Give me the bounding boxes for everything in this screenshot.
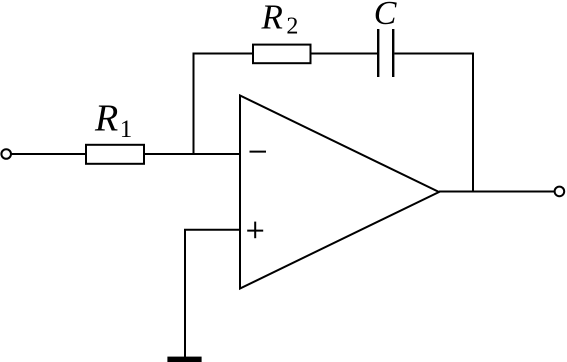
wire: input terminal to R1 [11,153,86,155]
op-amp U1 inverting input label (minus) [250,151,267,153]
wire: top rail, node A to R2 [193,53,254,55]
wire: non-inverting input horizontal [184,229,240,231]
input terminal (left open circle) [1,149,11,159]
capacitor C (two plates) [378,29,393,77]
wire: down to ground [184,230,186,357]
svg-text:R2: R2 [261,0,299,39]
wire: R1 to inverting input [144,153,240,155]
ground [167,357,201,362]
op-amp U1 (triangle) [240,96,439,289]
output terminal (right open circle) [555,187,565,197]
svg-text:R1: R1 [94,98,132,144]
resistor R1 (box) [86,145,144,164]
wire: feedback left vertical (node A up to top rail) [193,54,195,156]
resistor R2 (box) [253,45,311,64]
wire: capacitor to right vertical [394,53,474,55]
svg-text:C: C [374,0,397,32]
wire: R2 to capacitor C [311,53,378,55]
wire: feedback right vertical down to output [472,53,474,192]
op-amp U1 non-inverting input label (plus) [247,222,263,239]
wire: op-amp output to output terminal [439,191,555,193]
